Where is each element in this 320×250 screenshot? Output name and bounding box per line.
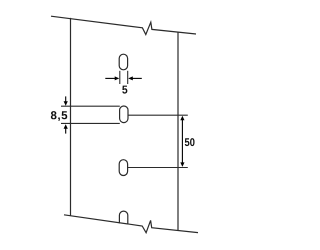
dimension 5: right extension line: [127, 71, 129, 84]
dimension 50: upper extension line (slot 2 centre): [128, 114, 188, 116]
dimension 50: label: [185, 138, 195, 146]
dimension 8,5: bottom line: [61, 122, 120, 124]
dimension 8,5: down arrow: [64, 96, 68, 105]
right edge: [177, 32, 179, 230]
dimension 8,5: top line: [61, 105, 120, 107]
dimension 50: vertical dim line with arrows: [180, 116, 184, 167]
bottom edge with break line: [64, 215, 198, 233]
slot 2: [120, 106, 128, 123]
slot 3: [119, 160, 127, 176]
slot 1: [119, 54, 127, 70]
dimension 5: label: [122, 86, 127, 94]
dimension 50: lower extension line (slot 3 centre): [128, 167, 188, 169]
left edge: [70, 18, 72, 216]
slot 4 (partial, cut by bottom break): [119, 211, 127, 224]
dimension 8,5: up arrow: [64, 124, 68, 133]
dimension 5: left dim line with arrow: [105, 76, 119, 80]
dimension 5: right dim line with arrow: [128, 76, 142, 80]
dimension 8,5: label: [51, 111, 67, 121]
top edge with break line: [51, 16, 196, 34]
dimension 5: left extension line: [119, 71, 121, 84]
